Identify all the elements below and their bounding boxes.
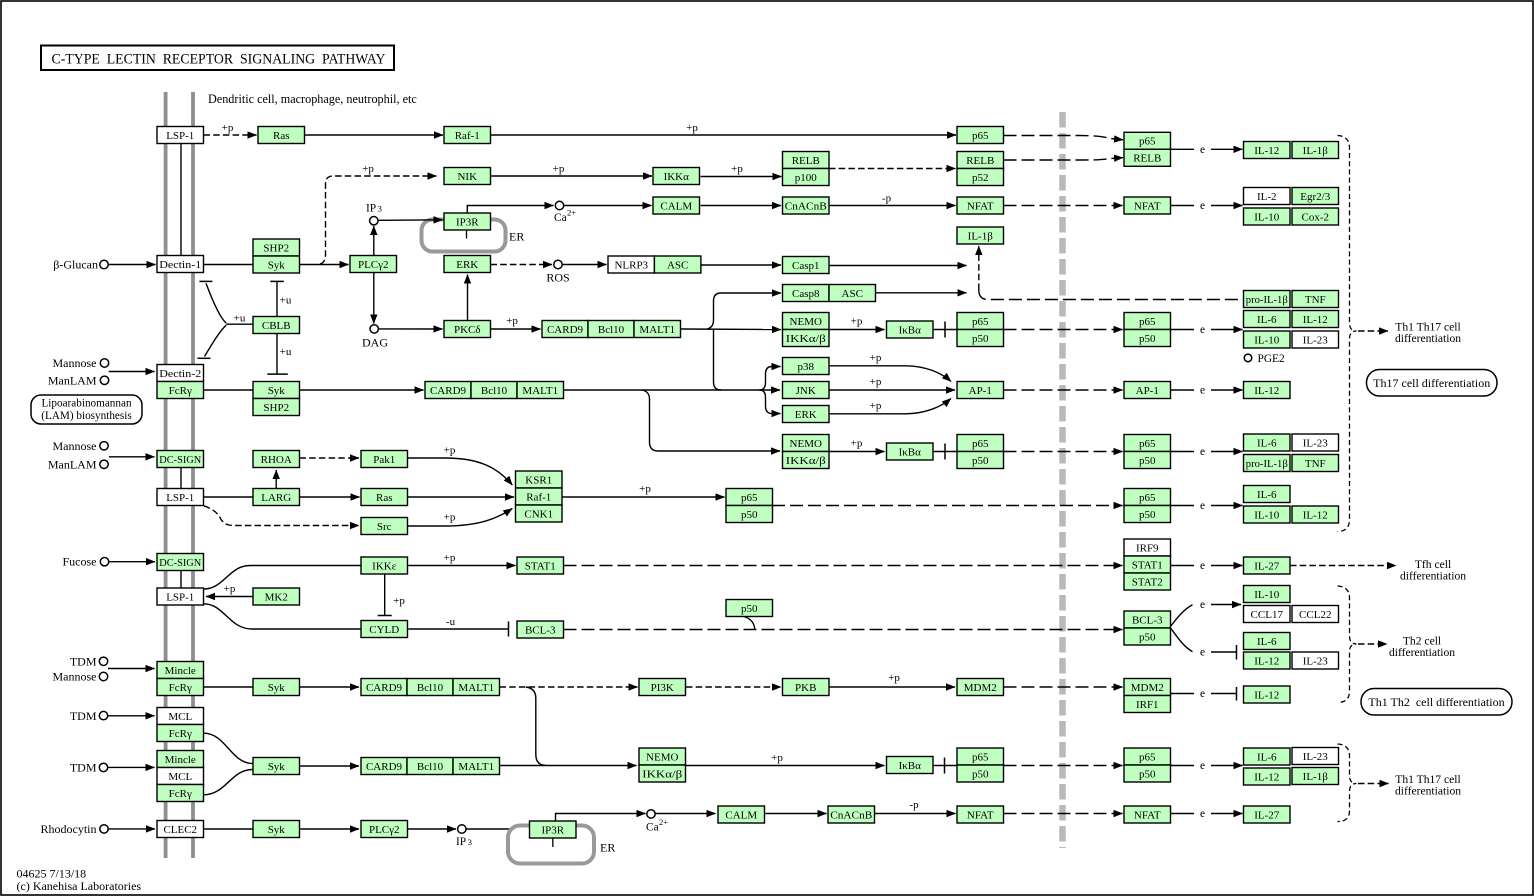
svg-text:DC-SIGN: DC-SIGN bbox=[159, 557, 201, 569]
svg-text:IL-23: IL-23 bbox=[1303, 655, 1329, 667]
svg-text:BCL-3: BCL-3 bbox=[1132, 614, 1163, 626]
svg-text:p50: p50 bbox=[741, 509, 758, 521]
svg-text:STAT1: STAT1 bbox=[1132, 559, 1163, 571]
svg-text:FcRγ: FcRγ bbox=[169, 788, 192, 800]
svg-text:CARD9: CARD9 bbox=[547, 324, 584, 336]
svg-text:3: 3 bbox=[378, 204, 382, 214]
svg-text:CYLD: CYLD bbox=[369, 624, 399, 636]
svg-text:pro-IL-1β: pro-IL-1β bbox=[1246, 294, 1288, 306]
svg-text:DC-SIGN: DC-SIGN bbox=[159, 454, 201, 466]
svg-text:e: e bbox=[1200, 446, 1205, 458]
svg-text:p50: p50 bbox=[1139, 631, 1156, 643]
svg-text:+p: +p bbox=[444, 445, 456, 457]
svg-text:+p: +p bbox=[870, 400, 882, 412]
svg-text:IL-10: IL-10 bbox=[1254, 589, 1280, 601]
svg-text:IL-10: IL-10 bbox=[1254, 334, 1280, 346]
svg-text:differentiation: differentiation bbox=[1400, 570, 1466, 583]
svg-text:PI3K: PI3K bbox=[651, 682, 674, 694]
svg-text:+p: +p bbox=[393, 595, 405, 607]
svg-text:IκBα: IκBα bbox=[899, 760, 922, 772]
svg-text:LSP-1: LSP-1 bbox=[166, 492, 194, 504]
svg-text:MALT1: MALT1 bbox=[458, 761, 494, 773]
svg-text:Dectin-2: Dectin-2 bbox=[159, 368, 201, 380]
svg-text:Mannose: Mannose bbox=[53, 670, 97, 684]
svg-text:NFAT: NFAT bbox=[967, 200, 994, 212]
svg-text:RELB: RELB bbox=[1133, 153, 1161, 165]
svg-text:CARD9: CARD9 bbox=[366, 682, 403, 694]
svg-text:Syk: Syk bbox=[268, 761, 286, 773]
svg-text:Fucose: Fucose bbox=[63, 555, 97, 569]
svg-text:IL-10: IL-10 bbox=[1254, 211, 1280, 223]
svg-text:e: e bbox=[1200, 599, 1205, 611]
svg-text:+p: +p bbox=[553, 163, 565, 175]
svg-text:Ca: Ca bbox=[554, 212, 567, 224]
svg-text:JNK: JNK bbox=[796, 385, 816, 397]
svg-text:C-TYPE LECTIN RECEPTOR SIGN: C-TYPE LECTIN RECEPTOR SIGNALING PATHWAY bbox=[52, 52, 386, 68]
svg-text:IKKα/β: IKKα/β bbox=[786, 333, 826, 345]
svg-text:+p: +p bbox=[444, 512, 456, 524]
svg-text:e: e bbox=[1200, 760, 1205, 772]
svg-text:+p: +p bbox=[686, 122, 698, 134]
svg-text:MDM2: MDM2 bbox=[1131, 682, 1164, 694]
svg-text:p65: p65 bbox=[972, 316, 989, 328]
svg-text:NFAT: NFAT bbox=[967, 809, 994, 821]
svg-text:CALM: CALM bbox=[725, 809, 757, 821]
svg-text:differentiation: differentiation bbox=[1395, 332, 1461, 345]
svg-text:p65: p65 bbox=[1139, 136, 1156, 148]
svg-text:+p: +p bbox=[222, 122, 234, 134]
svg-text:MALT1: MALT1 bbox=[458, 682, 494, 694]
svg-text:p50: p50 bbox=[1139, 509, 1156, 521]
svg-text:TDM: TDM bbox=[70, 761, 97, 775]
svg-text:Pak1: Pak1 bbox=[373, 454, 395, 466]
svg-text:CnACnB: CnACnB bbox=[785, 200, 827, 212]
svg-text:p100: p100 bbox=[795, 172, 818, 184]
svg-text:Mannose: Mannose bbox=[53, 439, 97, 453]
svg-text:-p: -p bbox=[882, 193, 892, 205]
svg-text:NFAT: NFAT bbox=[1134, 200, 1161, 212]
svg-text:IL-27: IL-27 bbox=[1254, 809, 1280, 821]
svg-text:NLRP3: NLRP3 bbox=[614, 259, 648, 271]
svg-text:CALM: CALM bbox=[660, 200, 692, 212]
svg-text:CCL17: CCL17 bbox=[1251, 609, 1284, 621]
svg-text:DAG: DAG bbox=[362, 336, 388, 350]
svg-text:MALT1: MALT1 bbox=[639, 324, 675, 336]
svg-text:Ras: Ras bbox=[273, 130, 290, 142]
svg-text:NIK: NIK bbox=[457, 171, 477, 183]
svg-text:CnACnB: CnACnB bbox=[830, 809, 872, 821]
svg-text:differentiation: differentiation bbox=[1389, 646, 1455, 659]
svg-text:e: e bbox=[1200, 808, 1205, 820]
svg-text:p65: p65 bbox=[741, 492, 758, 504]
svg-text:p50: p50 bbox=[741, 603, 758, 615]
svg-text:IL-12: IL-12 bbox=[1254, 385, 1279, 397]
svg-text:LARG: LARG bbox=[261, 492, 291, 504]
svg-text:PGE2: PGE2 bbox=[1258, 353, 1286, 365]
svg-text:FcRγ: FcRγ bbox=[169, 728, 192, 740]
svg-text:SHP2: SHP2 bbox=[263, 402, 289, 414]
svg-text:Rhodocytin: Rhodocytin bbox=[41, 822, 97, 836]
svg-text:ManLAM: ManLAM bbox=[48, 458, 97, 472]
svg-text:IL-12: IL-12 bbox=[1254, 145, 1279, 157]
svg-text:e: e bbox=[1200, 647, 1205, 659]
svg-text:PLCγ2: PLCγ2 bbox=[358, 259, 389, 271]
svg-text:Cox-2: Cox-2 bbox=[1302, 211, 1330, 223]
svg-text:FcRγ: FcRγ bbox=[169, 385, 192, 397]
svg-text:IL-6: IL-6 bbox=[1257, 636, 1277, 648]
svg-text:Lipoarabinomannan: Lipoarabinomannan bbox=[41, 398, 131, 410]
svg-text:MCL: MCL bbox=[168, 771, 192, 783]
svg-text:+u: +u bbox=[234, 313, 246, 325]
svg-text:2+: 2+ bbox=[567, 208, 576, 218]
svg-text:RELB: RELB bbox=[966, 155, 994, 167]
svg-text:TDM: TDM bbox=[70, 709, 97, 723]
svg-text:+u: +u bbox=[280, 295, 292, 307]
svg-text:Mincle: Mincle bbox=[165, 754, 196, 766]
svg-text:IP: IP bbox=[366, 203, 376, 215]
svg-text:+p: +p bbox=[639, 483, 651, 495]
svg-text:CARD9: CARD9 bbox=[430, 385, 467, 397]
svg-text:2+: 2+ bbox=[659, 817, 668, 827]
svg-text:ROS: ROS bbox=[546, 271, 569, 285]
svg-text:-p: -p bbox=[909, 799, 919, 811]
svg-text:Raf-1: Raf-1 bbox=[455, 130, 480, 142]
svg-text:(LAM) biosynthesis: (LAM) biosynthesis bbox=[41, 410, 131, 422]
svg-text:Egr2/3: Egr2/3 bbox=[1300, 191, 1330, 203]
svg-text:+p: +p bbox=[362, 163, 374, 175]
svg-text:+p: +p bbox=[771, 752, 783, 764]
svg-text:IL-12: IL-12 bbox=[1303, 509, 1328, 521]
svg-text:IKKα: IKKα bbox=[664, 171, 690, 183]
svg-text:ERK: ERK bbox=[795, 409, 817, 421]
svg-text:IL-23: IL-23 bbox=[1303, 437, 1329, 449]
svg-text:ER: ER bbox=[600, 841, 615, 855]
svg-text:PLCγ2: PLCγ2 bbox=[369, 824, 400, 836]
svg-text:e: e bbox=[1200, 688, 1205, 700]
svg-text:IL-10: IL-10 bbox=[1254, 509, 1280, 521]
svg-text:+u: +u bbox=[280, 346, 292, 358]
svg-text:p65: p65 bbox=[972, 438, 989, 450]
svg-text:NFAT: NFAT bbox=[1134, 809, 1161, 821]
svg-text:IL-6: IL-6 bbox=[1257, 314, 1277, 326]
svg-text:IL-27: IL-27 bbox=[1254, 560, 1280, 572]
svg-text:ERK: ERK bbox=[456, 259, 478, 271]
svg-text:p50: p50 bbox=[1139, 333, 1156, 345]
svg-text:TDM: TDM bbox=[70, 654, 97, 668]
svg-text:IKKα/β: IKKα/β bbox=[642, 768, 682, 780]
svg-text:Bcl10: Bcl10 bbox=[417, 761, 444, 773]
svg-text:ER: ER bbox=[509, 230, 524, 244]
svg-text:-u: -u bbox=[446, 616, 456, 628]
svg-text:AP-1: AP-1 bbox=[969, 385, 992, 397]
svg-text:Casp1: Casp1 bbox=[792, 260, 820, 272]
svg-text:Casp8: Casp8 bbox=[792, 288, 820, 300]
svg-text:NEMO: NEMO bbox=[790, 316, 822, 328]
svg-text:IL-1β: IL-1β bbox=[1303, 145, 1329, 157]
svg-text:IκBα: IκBα bbox=[899, 324, 922, 336]
svg-text:IL-1β: IL-1β bbox=[968, 230, 994, 242]
svg-text:ASC: ASC bbox=[842, 288, 863, 300]
svg-text:CCL22: CCL22 bbox=[1299, 609, 1331, 621]
svg-text:p65: p65 bbox=[1139, 438, 1156, 450]
svg-text:e: e bbox=[1200, 200, 1205, 212]
svg-text:IL-23: IL-23 bbox=[1303, 751, 1329, 763]
svg-text:Th1 Th2 cell differentiation: Th1 Th2 cell differentiation bbox=[1368, 695, 1504, 709]
svg-text:IP3R: IP3R bbox=[541, 824, 564, 836]
svg-text:Bcl10: Bcl10 bbox=[598, 324, 625, 336]
svg-text:e: e bbox=[1200, 385, 1205, 397]
svg-text:Dendritic cell, macrophage, ne: Dendritic cell, macrophage, neutrophil, … bbox=[208, 92, 417, 106]
svg-text:+p: +p bbox=[851, 316, 863, 328]
svg-text:Syk: Syk bbox=[268, 682, 286, 694]
svg-text:STAT2: STAT2 bbox=[1132, 576, 1163, 588]
svg-text:Mincle: Mincle bbox=[165, 665, 196, 677]
svg-text:IP: IP bbox=[456, 836, 466, 848]
svg-text:e: e bbox=[1200, 324, 1205, 336]
svg-text:PKCδ: PKCδ bbox=[454, 324, 481, 336]
svg-text:+p: +p bbox=[224, 583, 236, 595]
svg-text:NEMO: NEMO bbox=[790, 438, 822, 450]
svg-text:CLEC2: CLEC2 bbox=[163, 824, 197, 836]
svg-text:+p: +p bbox=[851, 438, 863, 450]
svg-text:MDM2: MDM2 bbox=[964, 682, 997, 694]
svg-text:IκBα: IκBα bbox=[899, 446, 922, 458]
svg-text:MCL: MCL bbox=[168, 711, 192, 723]
svg-text:IL-6: IL-6 bbox=[1257, 437, 1277, 449]
svg-text:IL-12: IL-12 bbox=[1254, 689, 1279, 701]
svg-text:p50: p50 bbox=[972, 768, 989, 780]
svg-text:Raf-1: Raf-1 bbox=[526, 491, 551, 503]
svg-text:MK2: MK2 bbox=[265, 591, 288, 603]
svg-text:CNK1: CNK1 bbox=[524, 508, 553, 520]
svg-text:Src: Src bbox=[377, 521, 392, 533]
svg-text:differentiation: differentiation bbox=[1395, 784, 1461, 797]
svg-text:LSP-1: LSP-1 bbox=[166, 130, 194, 142]
svg-text:BCL-3: BCL-3 bbox=[525, 624, 556, 636]
svg-text:IL-12: IL-12 bbox=[1254, 655, 1279, 667]
svg-text:e: e bbox=[1200, 144, 1205, 156]
svg-text:p65: p65 bbox=[972, 751, 989, 763]
svg-text:+p: +p bbox=[444, 552, 456, 564]
svg-text:IRF9: IRF9 bbox=[1136, 542, 1159, 554]
svg-text:+p: +p bbox=[870, 376, 882, 388]
svg-text:IKKε: IKKε bbox=[372, 560, 397, 572]
svg-text:ManLAM: ManLAM bbox=[48, 374, 97, 388]
svg-text:p65: p65 bbox=[1139, 492, 1156, 504]
svg-text:MALT1: MALT1 bbox=[522, 385, 558, 397]
svg-text:IP3R: IP3R bbox=[456, 216, 479, 228]
svg-text:Mannose: Mannose bbox=[53, 356, 97, 370]
svg-text:PKB: PKB bbox=[795, 682, 816, 694]
svg-text:CBLB: CBLB bbox=[262, 320, 291, 332]
svg-text:IL-6: IL-6 bbox=[1257, 489, 1277, 501]
svg-text:Bcl10: Bcl10 bbox=[481, 385, 508, 397]
svg-text:Bcl10: Bcl10 bbox=[417, 682, 444, 694]
svg-text:IL-1β: IL-1β bbox=[1303, 771, 1329, 783]
svg-text:p65: p65 bbox=[972, 130, 989, 142]
svg-text:Syk: Syk bbox=[268, 385, 286, 397]
svg-text:p50: p50 bbox=[972, 333, 989, 345]
svg-text:TNF: TNF bbox=[1305, 458, 1326, 470]
svg-text:RHOA: RHOA bbox=[261, 454, 292, 466]
svg-text:IL-2: IL-2 bbox=[1257, 191, 1277, 203]
svg-text:+p: +p bbox=[731, 163, 743, 175]
svg-text:e: e bbox=[1200, 560, 1205, 572]
svg-text:p50: p50 bbox=[972, 455, 989, 467]
svg-text:p50: p50 bbox=[1139, 768, 1156, 780]
svg-text:(c) Kanehisa Laboratories: (c) Kanehisa Laboratories bbox=[17, 879, 142, 893]
svg-text:Syk: Syk bbox=[268, 259, 286, 271]
svg-text:p50: p50 bbox=[1139, 455, 1156, 467]
svg-text:Ras: Ras bbox=[376, 492, 393, 504]
svg-text:IKKα/β: IKKα/β bbox=[786, 455, 826, 467]
svg-text:IL-12: IL-12 bbox=[1303, 314, 1328, 326]
svg-text:+p: +p bbox=[870, 352, 882, 364]
svg-text:NEMO: NEMO bbox=[646, 751, 678, 763]
svg-text:β-Glucan: β-Glucan bbox=[53, 257, 98, 271]
svg-text:e: e bbox=[1200, 500, 1205, 512]
svg-text:+p: +p bbox=[888, 672, 900, 684]
svg-text:p65: p65 bbox=[1139, 316, 1156, 328]
svg-text:ASC: ASC bbox=[667, 259, 688, 271]
svg-text:IL-23: IL-23 bbox=[1303, 334, 1329, 346]
svg-text:AP-1: AP-1 bbox=[1136, 385, 1159, 397]
svg-text:KSR1: KSR1 bbox=[525, 474, 552, 486]
svg-text:pro-IL-1β: pro-IL-1β bbox=[1246, 458, 1288, 470]
svg-text:RELB: RELB bbox=[792, 155, 820, 167]
svg-text:p52: p52 bbox=[972, 172, 989, 184]
svg-text:p65: p65 bbox=[1139, 751, 1156, 763]
svg-text:Ca: Ca bbox=[646, 822, 659, 834]
svg-text:Syk: Syk bbox=[268, 824, 286, 836]
svg-text:p38: p38 bbox=[798, 361, 815, 373]
svg-text:SHP2: SHP2 bbox=[263, 242, 289, 254]
svg-text:Dectin-1: Dectin-1 bbox=[159, 259, 201, 271]
svg-text:IRF1: IRF1 bbox=[1136, 699, 1159, 711]
svg-text:CARD9: CARD9 bbox=[366, 761, 403, 773]
svg-text:TNF: TNF bbox=[1305, 294, 1326, 306]
svg-text:FcRγ: FcRγ bbox=[169, 682, 192, 694]
svg-text:3: 3 bbox=[468, 837, 472, 847]
svg-text:+p: +p bbox=[506, 315, 518, 327]
svg-text:Th17 cell differentiation: Th17 cell differentiation bbox=[1373, 376, 1490, 390]
svg-text:IL-12: IL-12 bbox=[1254, 771, 1279, 783]
svg-text:LSP-1: LSP-1 bbox=[166, 591, 194, 603]
svg-text:IL-6: IL-6 bbox=[1257, 751, 1277, 763]
svg-text:STAT1: STAT1 bbox=[525, 560, 556, 572]
